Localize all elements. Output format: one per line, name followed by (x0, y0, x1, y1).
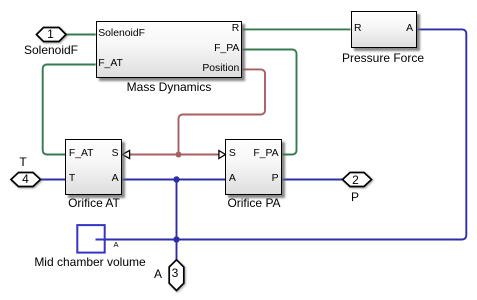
label T (port 4) (13, 156, 33, 168)
port 3 hexagon (169, 260, 184, 291)
port 1 hexagon (37, 28, 67, 42)
label SolenoidF (port 1) (1, 44, 101, 56)
port 2 hexagon (343, 173, 372, 187)
port 4 hexagon (11, 173, 41, 187)
junction Position node (176, 152, 182, 158)
arrowhead Orifice PA S (219, 151, 226, 159)
block Orifice AT (65, 139, 122, 196)
junction node A lower (173, 236, 179, 242)
wire Position branch to Orifice AT S (130, 154, 179, 156)
wire F_PA: Mass Dynamics to Orifice PA (242, 50, 296, 155)
number 3 (port 3) (165, 267, 185, 279)
number 4 (port 4) (16, 173, 36, 185)
wire P: Orifice PA to port2 (282, 179, 342, 181)
label Orifice AT (44, 197, 144, 209)
number 2 (port 2) (346, 174, 366, 186)
label Mid chamber volume (20, 256, 160, 268)
port name A (mid chamber volume) (111, 241, 121, 249)
label Mass Dynamics (99, 81, 239, 93)
arrowhead Orifice AT S (122, 151, 130, 159)
block Pressure Force (351, 11, 417, 49)
label Orifice PA (204, 197, 304, 209)
wire A vertical to node A (176, 180, 178, 260)
wire T: port4 to Orifice AT (41, 179, 66, 181)
wire R: Mass Dynamics to Pressure Force (242, 28, 350, 30)
block Mid chamber volume icon (77, 225, 104, 253)
wire SolenoidF: port1 to Mass Dynamics (66, 34, 96, 36)
wire F_AT: Mass Dynamics to Orifice AT (43, 65, 96, 155)
junction node A upper (173, 176, 179, 182)
wire Position branch to Orifice PA S (179, 154, 220, 156)
label A (port 3) (148, 268, 168, 280)
number 1 (port 1) (41, 28, 61, 40)
label Pressure Force (333, 52, 433, 64)
label P (port 2) (345, 191, 365, 203)
wire A loop: Pressure Force to mid chamber volume (96, 29, 467, 239)
wire A: Orifice AT to Orifice PA (122, 179, 225, 181)
block Orifice PA (225, 139, 282, 196)
port stub Mid chamber volume A (96, 239, 105, 241)
wire Position: Mass Dynamics to S junction (179, 69, 266, 154)
block Mass Dynamics (96, 21, 243, 78)
